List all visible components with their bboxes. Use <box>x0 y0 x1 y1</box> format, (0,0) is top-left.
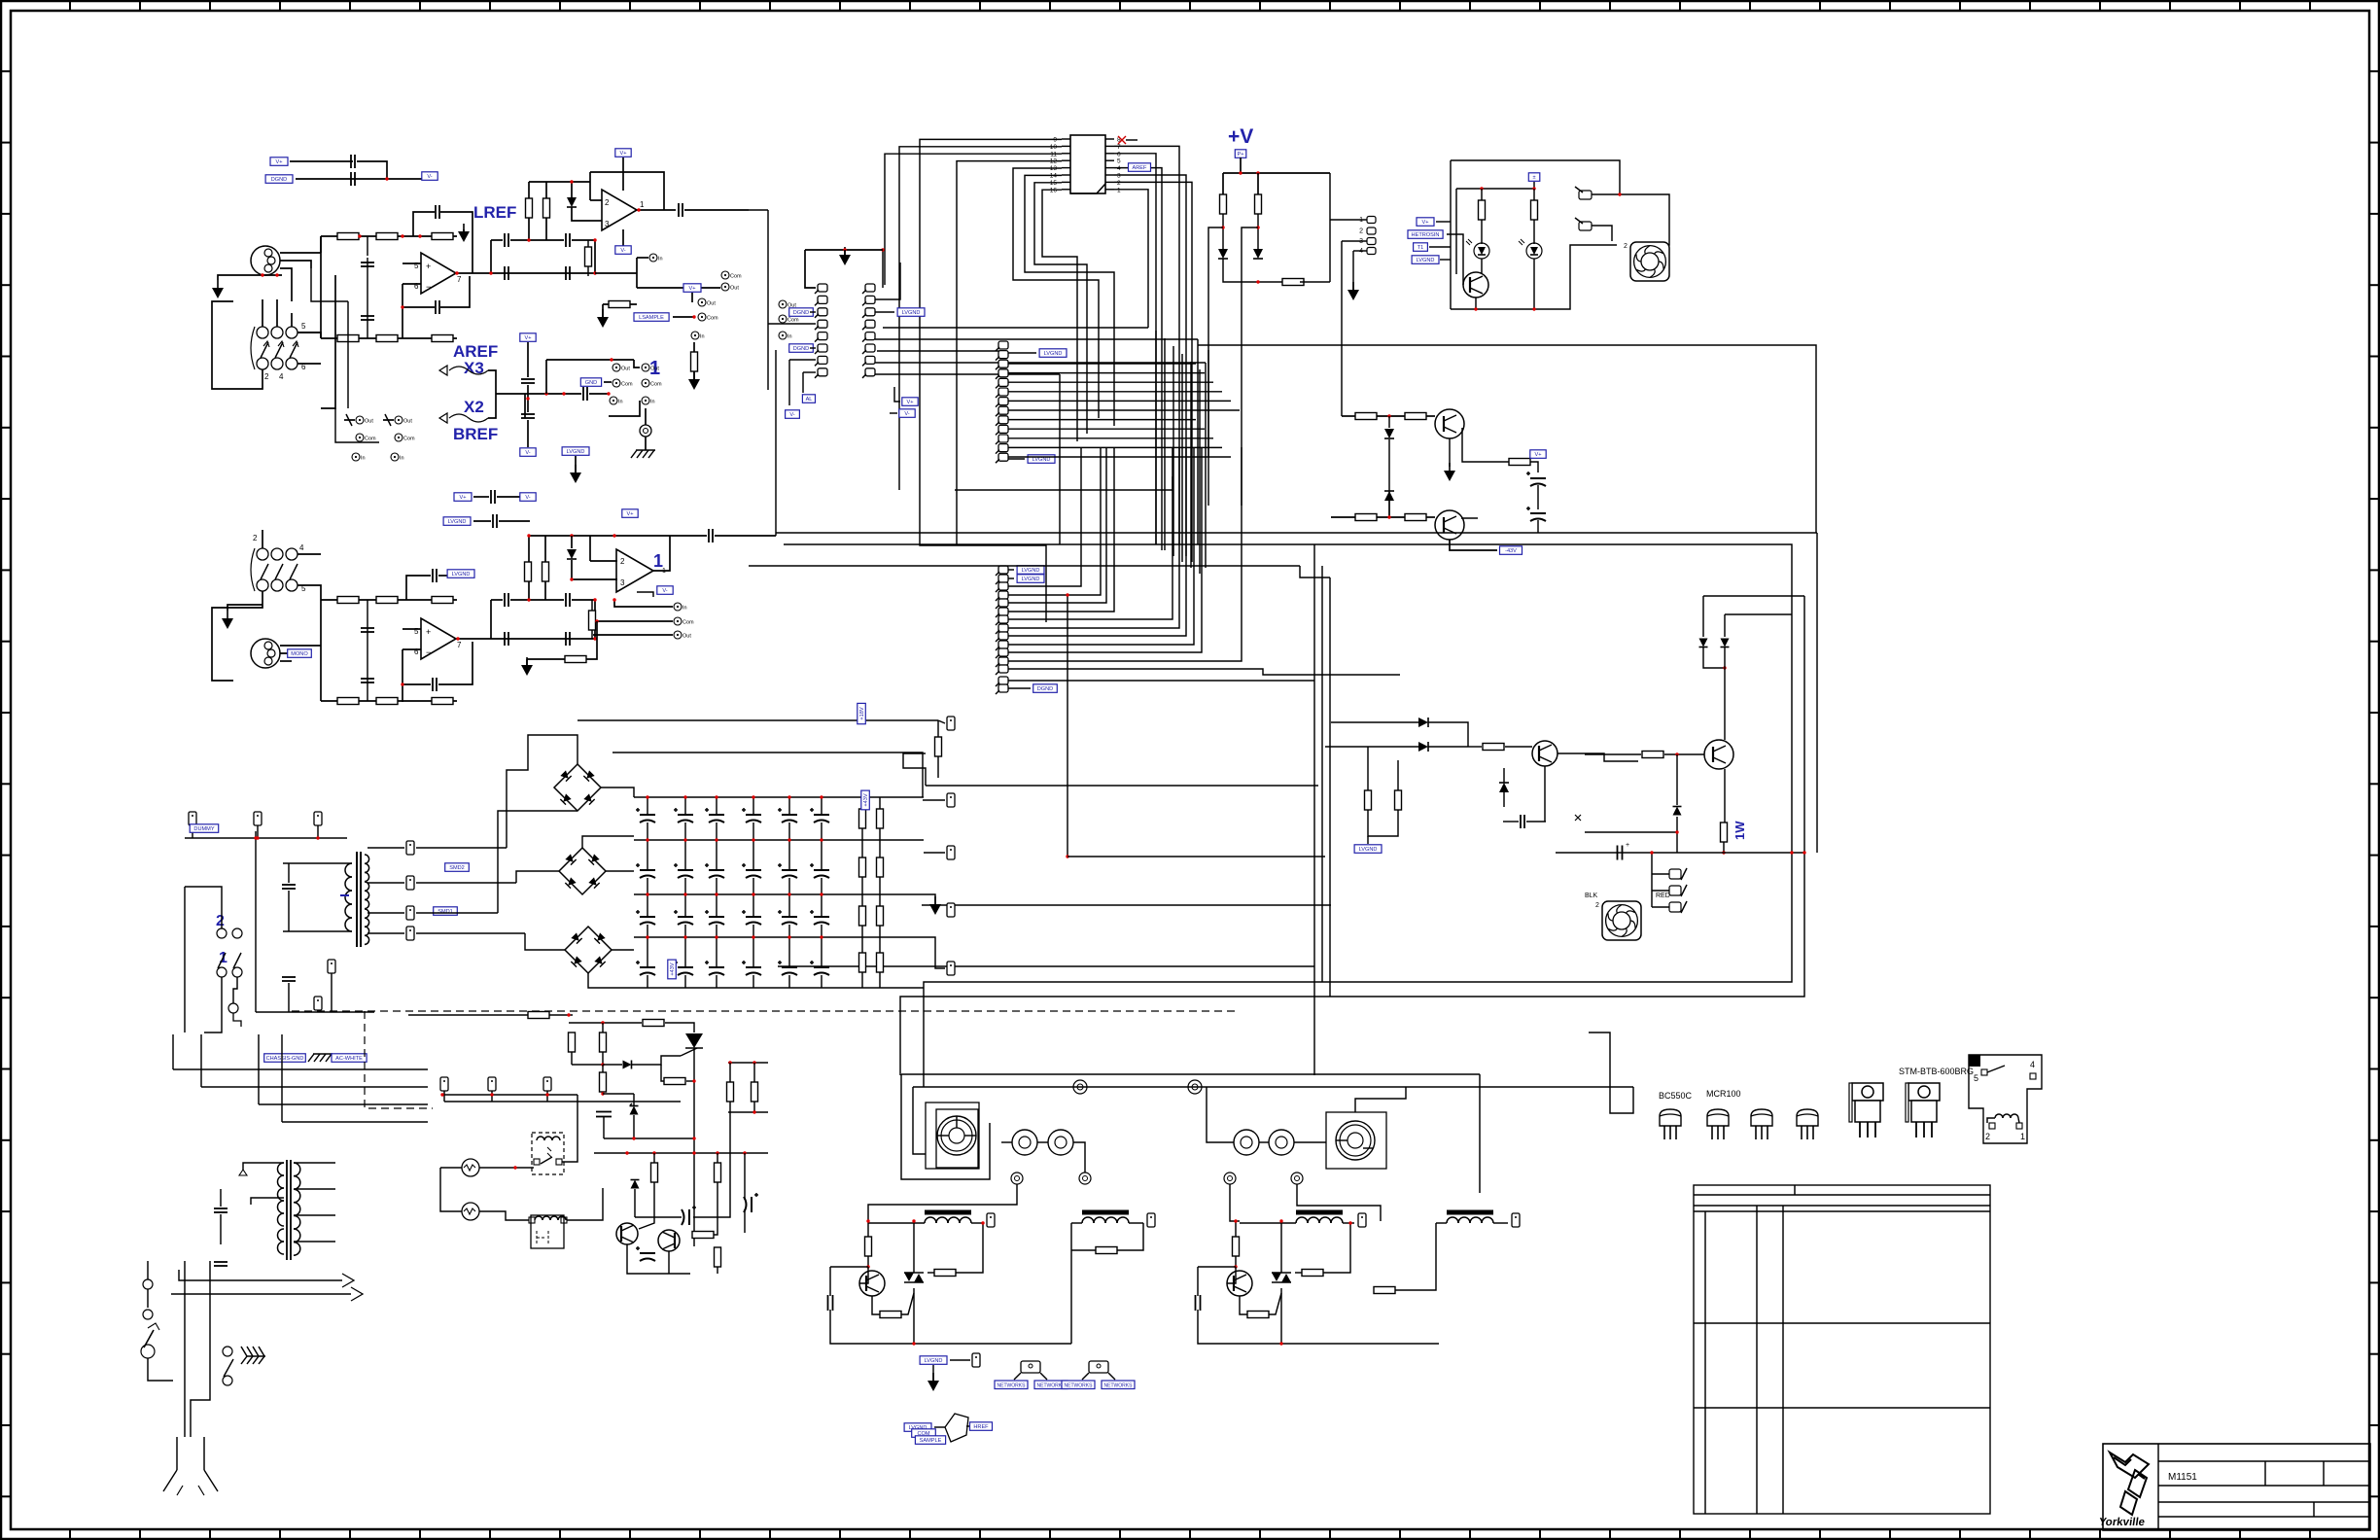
svg-text:T1: T1 <box>1417 245 1424 251</box>
svg-text:HREF: HREF <box>973 1424 989 1430</box>
svg-text:Out: Out <box>403 419 412 425</box>
svg-text:Out: Out <box>650 367 659 372</box>
svg-text:4: 4 <box>1117 165 1121 172</box>
TO-92 packages <box>1659 1089 1818 1139</box>
center vertical bus <box>1156 331 1208 574</box>
svg-text:V-: V- <box>789 412 794 418</box>
binding posts L <box>868 1130 1091 1221</box>
svg-text:+: + <box>1626 842 1629 849</box>
svg-text:4: 4 <box>2030 1060 2035 1069</box>
title block <box>2098 1444 2370 1530</box>
svg-text:5: 5 <box>301 322 306 331</box>
svg-text:2: 2 <box>1985 1132 1990 1141</box>
trim network 1 channel A <box>525 358 662 458</box>
bridge rectifier B1 <box>554 764 601 811</box>
svg-text:LVGND: LVGND <box>1022 577 1040 582</box>
svg-text:Yorkville: Yorkville <box>2098 1517 2146 1528</box>
svg-text:1: 1 <box>640 200 645 209</box>
svg-text:V+: V+ <box>460 495 467 501</box>
output ground <box>920 1353 980 1391</box>
XLR connector J2 <box>251 639 280 668</box>
svg-text:V+: V+ <box>627 511 634 517</box>
svg-text:P+: P+ <box>1238 152 1244 157</box>
TO-220 packages <box>1849 1067 1974 1137</box>
svg-text:Com: Com <box>787 318 799 324</box>
svg-text:5: 5 <box>1117 158 1121 165</box>
output protection L <box>865 1237 872 1256</box>
+V supply block <box>1208 125 1376 506</box>
bridge rectifier B3 <box>565 927 612 973</box>
svg-text:Com: Com <box>707 316 718 322</box>
svg-text:+43V: +43V <box>670 962 676 975</box>
svg-text:2: 2 <box>605 198 610 207</box>
aux transformer T3 <box>214 1160 335 1266</box>
output protection R <box>1233 1237 1240 1256</box>
IC routing staircase <box>957 161 1114 544</box>
driver transistor block <box>1331 409 1546 554</box>
svg-text:MCR100: MCR100 <box>1706 1089 1741 1099</box>
IC left harness <box>885 139 1172 622</box>
relay package <box>1969 1055 2042 1143</box>
harness cross wires <box>873 328 1206 568</box>
right loop wires <box>900 345 1817 1087</box>
svg-text:Com: Com <box>650 382 662 388</box>
thermal sensors <box>995 1361 1135 1389</box>
svg-text:Com: Com <box>730 274 742 280</box>
svg-text:3: 3 <box>1117 173 1121 180</box>
AC wiring labels <box>173 1034 428 1122</box>
svg-text:V+: V+ <box>1422 220 1429 226</box>
MONO label <box>288 649 312 658</box>
LREF node arrow <box>458 231 470 242</box>
speakon connector L <box>901 1074 990 1179</box>
svg-text:SMD1: SMD1 <box>437 909 453 915</box>
input select switch B <box>212 530 321 681</box>
svg-text:V+: V+ <box>689 286 696 292</box>
svg-text:3: 3 <box>605 220 610 228</box>
P2 harness wires <box>1008 364 1240 457</box>
op-amp U1B channel A <box>401 205 472 338</box>
svg-text:AC-WHITE: AC-WHITE <box>335 1056 363 1062</box>
XLR connector J1 <box>251 246 280 275</box>
svg-text:−: − <box>426 282 431 292</box>
svg-text:Com: Com <box>621 382 633 388</box>
thermal breaker <box>185 887 256 1032</box>
svg-text:3: 3 <box>620 578 625 587</box>
svg-text:BLK: BLK <box>1585 892 1598 899</box>
loop resistor L2 <box>1071 1223 1143 1344</box>
choke L1 <box>925 1210 971 1215</box>
svg-text:X2: X2 <box>464 398 484 416</box>
svg-text:LVGND: LVGND <box>452 572 471 577</box>
op-amp U2B channel B <box>401 569 474 702</box>
svg-text:In: In <box>650 400 655 405</box>
svg-text:V+: V+ <box>907 400 914 405</box>
svg-text:NETWORKS: NETWORKS <box>997 1383 1027 1389</box>
svg-text:Com: Com <box>365 437 376 442</box>
svg-text:NETWORKS: NETWORKS <box>1104 1383 1134 1389</box>
svg-text:7: 7 <box>1117 144 1121 151</box>
svg-text:6: 6 <box>1117 151 1121 157</box>
svg-text:4: 4 <box>279 372 284 381</box>
svg-text:GND: GND <box>585 380 597 386</box>
svg-text:-43V: -43V <box>1505 548 1517 554</box>
svg-text:DGND: DGND <box>271 177 287 183</box>
IC U3 header <box>1050 135 1137 193</box>
svg-text:DGND: DGND <box>1037 686 1053 692</box>
bridge rectifier B2 <box>559 848 606 894</box>
choke L2 <box>1082 1210 1129 1215</box>
svg-text:Com: Com <box>403 437 415 442</box>
svg-text:In: In <box>361 456 366 462</box>
svg-text:Out: Out <box>621 367 630 372</box>
connector P2 pads <box>996 341 1067 463</box>
reference divider caps <box>520 333 536 457</box>
capacitor bank <box>634 790 941 988</box>
gain pot 1 channel A <box>344 414 376 462</box>
svg-text:2: 2 <box>1359 228 1363 235</box>
svg-text:V+: V+ <box>525 335 532 341</box>
svg-text:2: 2 <box>253 534 258 542</box>
svg-text:LVGND: LVGND <box>448 519 467 525</box>
svg-text:2: 2 <box>620 557 625 566</box>
op-amp U2A output channel B <box>590 529 776 597</box>
svg-text:V-: V- <box>904 411 909 417</box>
input select switch A <box>212 299 321 389</box>
svg-text:−: − <box>426 647 431 657</box>
input resistor rows A <box>321 233 457 342</box>
svg-text:1: 1 <box>2020 1132 2025 1141</box>
off-sheet arrows <box>171 1270 363 1301</box>
sensor cluster <box>904 1414 992 1444</box>
decoupling caps channel A <box>265 155 437 186</box>
supply labels <box>890 387 918 417</box>
svg-text:DGND: DGND <box>793 310 809 316</box>
limiter transistor block <box>1325 717 1638 853</box>
svg-text:V-: V- <box>620 248 625 254</box>
choke L3 <box>1296 1210 1343 1215</box>
channel A wiring <box>297 236 379 442</box>
svg-text:+43V: +43V <box>863 793 869 806</box>
svg-text:V+: V+ <box>620 151 627 157</box>
svg-text:Out: Out <box>730 286 739 292</box>
DGND arrow <box>839 255 851 265</box>
svg-text:In: In <box>787 334 792 340</box>
svg-text:7: 7 <box>457 275 462 284</box>
svg-text:LREF: LREF <box>473 203 516 222</box>
svg-text:LVGND: LVGND <box>1022 568 1040 574</box>
power transformer T2 <box>283 838 469 947</box>
svg-text:AREF: AREF <box>1133 165 1148 171</box>
input resistor rows B <box>321 597 457 705</box>
svg-text:4: 4 <box>299 543 304 552</box>
svg-text:M1151: M1151 <box>2168 1472 2197 1483</box>
IC right harness <box>1114 146 1192 562</box>
svg-text:Out: Out <box>365 419 373 425</box>
svg-text:RED: RED <box>1656 892 1670 899</box>
svg-text:SMD2: SMD2 <box>449 865 465 871</box>
svg-text:LVGND: LVGND <box>1044 351 1063 357</box>
svg-text:V-: V- <box>662 588 667 594</box>
svg-text:V+: V+ <box>276 159 283 165</box>
sense network B <box>521 598 694 676</box>
loop resistor L4 <box>1354 1223 1508 1344</box>
svg-text:In: In <box>400 456 404 462</box>
relays and lamps <box>440 1093 603 1248</box>
svg-text:Com: Com <box>682 620 694 626</box>
svg-text:V-: V- <box>427 174 432 180</box>
ground arrow A <box>212 288 224 298</box>
AREF label <box>1129 163 1151 172</box>
svg-text:DUMMY: DUMMY <box>193 826 214 832</box>
svg-text:LVGND: LVGND <box>925 1358 943 1364</box>
soft-start transistors <box>594 1112 768 1274</box>
svg-text:+18V: +18V <box>859 707 865 719</box>
svg-text:LVGND: LVGND <box>567 449 585 455</box>
ground arrow B <box>222 618 233 629</box>
svg-text:In: In <box>618 400 623 405</box>
output connector R <box>1207 1087 1406 1221</box>
svg-text:In: In <box>700 334 705 340</box>
chassis boundary dashed <box>292 1011 1240 1108</box>
sense network A <box>595 254 742 328</box>
svg-text:STM-BTB-600BRG: STM-BTB-600BRG <box>1899 1067 1974 1076</box>
svg-text:2: 2 <box>1595 902 1599 909</box>
fan M2 and connector <box>1585 851 1687 940</box>
svg-text:LSAMPLE: LSAMPLE <box>639 315 664 321</box>
op-amp U1A output channel A <box>590 149 749 254</box>
aux pads <box>185 812 347 840</box>
P3 fan-out <box>1008 447 1400 858</box>
svg-text:MONO: MONO <box>291 651 308 657</box>
svg-text:Out: Out <box>707 301 716 307</box>
svg-text:2: 2 <box>1117 180 1121 187</box>
svg-text:LVGND: LVGND <box>902 310 921 316</box>
LED indicator block <box>1408 160 1620 311</box>
primary caps <box>254 831 374 1012</box>
mains inlet <box>141 1261 265 1495</box>
audio bus wires <box>324 350 1817 1075</box>
LSAMPLE tap <box>634 284 799 390</box>
decoupling channel B <box>443 514 530 528</box>
svg-text:AL: AL <box>806 397 813 402</box>
LVGND channel A <box>525 394 589 483</box>
svg-text:1: 1 <box>1117 187 1121 193</box>
svg-text:1W: 1W <box>1732 821 1747 840</box>
svg-text:V-: V- <box>525 450 530 456</box>
filter caps channel A <box>472 180 597 280</box>
supply rails <box>577 703 942 797</box>
filter caps channel B <box>472 534 670 646</box>
output bus wires <box>901 1032 1633 1193</box>
connector P3 pads <box>996 566 1057 694</box>
svg-text:LVGND: LVGND <box>1359 847 1378 853</box>
parts table <box>1694 1185 1990 1514</box>
svg-text:BREF: BREF <box>453 425 498 443</box>
svg-text:CHASSIS-GND: CHASSIS-GND <box>266 1056 304 1062</box>
connector P1 pads <box>862 248 925 377</box>
svg-text:BC550C: BC550C <box>1659 1091 1693 1101</box>
svg-text:LVGND: LVGND <box>1417 258 1435 263</box>
svg-text:5: 5 <box>1974 1073 1978 1083</box>
midrail caps <box>454 490 638 517</box>
svg-text:+V: +V <box>1228 125 1253 148</box>
rectifier wiring <box>416 720 634 988</box>
input caps A <box>361 236 374 338</box>
svg-text:In: In <box>682 606 687 612</box>
svg-text:DGND: DGND <box>793 346 809 352</box>
svg-text:+: + <box>426 262 431 271</box>
svg-text:2: 2 <box>216 913 225 929</box>
svg-text:±: ± <box>1532 175 1535 181</box>
svg-text:Out: Out <box>682 634 691 640</box>
svg-text:SAMPLE: SAMPLE <box>920 1438 942 1444</box>
jumpers X3 X2 <box>439 342 525 443</box>
SCR soft-start <box>408 1012 768 1247</box>
fan drive transistor <box>1556 596 1806 860</box>
connector P0 pads <box>749 210 827 418</box>
svg-text:V-: V- <box>525 495 530 501</box>
svg-text:2: 2 <box>264 372 269 381</box>
svg-text:LVGND: LVGND <box>1032 457 1051 463</box>
choke L4 <box>1447 1210 1493 1215</box>
fan M1 <box>1575 187 1669 281</box>
svg-text:7: 7 <box>457 641 462 649</box>
svg-text:In: In <box>658 257 663 262</box>
svg-text:2: 2 <box>1624 243 1627 250</box>
svg-text:+: + <box>426 627 431 637</box>
svg-text:NETWORKS: NETWORKS <box>1065 1383 1094 1389</box>
gain pot 2 channel A <box>383 414 415 462</box>
AC pads <box>440 1077 681 1102</box>
PSU output pads <box>903 717 955 975</box>
svg-text:HETROSIN: HETROSIN <box>1412 232 1440 238</box>
svg-text:V+: V+ <box>1535 452 1542 458</box>
